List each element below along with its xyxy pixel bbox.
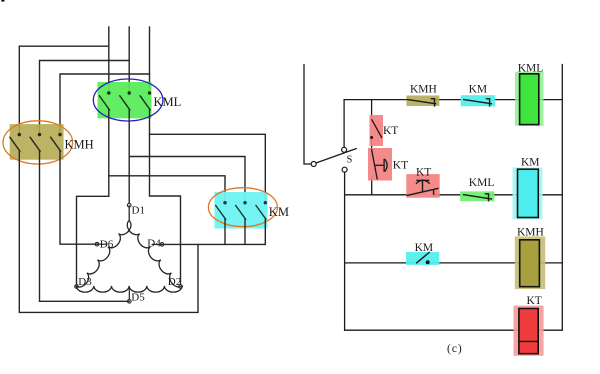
svg-text:KT: KT (393, 159, 408, 171)
svg-text:KT: KT (383, 125, 398, 137)
coil KM (518, 169, 539, 217)
svg-text:KM: KM (521, 157, 540, 169)
wires below KML (77, 110, 266, 285)
svg-text:KM: KM (415, 242, 434, 254)
svg-text:KT: KT (527, 295, 542, 307)
label 高速档 (0, 0, 1, 1)
node D5 (128, 287, 146, 303)
wire L3 to D2 with branch to KM (150, 110, 181, 285)
wire branch L1 to KM col1 (109, 176, 225, 201)
contact KT delay vertical highlight (368, 148, 392, 181)
wire right rail (538, 65, 562, 331)
node D1 (127, 203, 145, 216)
coil KMH (520, 240, 540, 287)
contact KML NC rung2 highlight (460, 191, 494, 201)
contactor KML highlight (98, 82, 152, 118)
contactor KMH highlight (10, 124, 64, 160)
svg-text:KM: KM (269, 205, 289, 219)
corner artifact mark (1, 0, 4, 2)
node D2 (168, 276, 183, 288)
wire KM outputs shorting bus (224, 219, 226, 244)
svg-text:KM: KM (469, 84, 488, 96)
wire rung3 (345, 262, 417, 264)
wire phase L1 vertical (108, 27, 110, 92)
wire KMH col2 down to D5 (40, 151, 130, 301)
node D3 (75, 276, 93, 288)
svg-text:KT: KT (416, 166, 431, 178)
wire D1 stub to apex (128, 205, 130, 220)
contact KT delay rung2 highlight (406, 174, 439, 198)
wire KT branch vertical (371, 100, 373, 120)
winding right side (127, 221, 182, 287)
wire left rail (304, 65, 311, 165)
svg-text:KML: KML (469, 177, 495, 189)
svg-text:KML: KML (154, 95, 182, 109)
contact KM NO rung3 highlight (406, 252, 439, 265)
winding left side (76, 221, 131, 287)
contact KT delay rung2 strokes (407, 180, 439, 195)
wire rung1 (344, 99, 407, 101)
coil KT divider (519, 340, 538, 342)
wire tap L3 to KMH col3 (60, 74, 150, 133)
svg-text:KMH: KMH (410, 84, 437, 96)
wire phase L3 vertical (149, 27, 151, 92)
wire high-speed down spine (344, 172, 346, 330)
contactor KM highlight (215, 192, 268, 229)
coil KML (520, 74, 539, 125)
contactor KML contacts (99, 91, 151, 110)
contact KT upper (NO) highlight (370, 115, 384, 146)
contact KM NC rung1 highlight (461, 95, 496, 106)
wire bus D4 to KM (162, 243, 265, 245)
contactor KMH ellipse (3, 121, 73, 164)
wires KM outputs to bus (162, 219, 265, 244)
wire KMH col1 down to bottom bus (19, 151, 198, 312)
wire rung4 (345, 329, 519, 331)
wire L2 to D1 with branch to KM (128, 110, 130, 203)
contact KT upper strokes (370, 119, 382, 139)
coil KM glow (513, 168, 543, 220)
coil KT glow (514, 306, 544, 356)
node D4 (147, 237, 164, 249)
motor delta winding (76, 205, 182, 292)
svg-text:KML: KML (518, 63, 544, 75)
contact KMH NC rung1 highlight (406, 96, 439, 107)
contactor KM ellipse (208, 188, 277, 227)
wire KMH col3 down to D6 (60, 151, 97, 244)
svg-text:D5: D5 (131, 291, 145, 303)
wires KMH outputs (19, 151, 198, 312)
svg-text:D3: D3 (78, 276, 92, 288)
contactor KMH contacts (10, 133, 62, 151)
svg-text:S: S (347, 154, 353, 165)
wire branch L2 to KM col2 (129, 157, 245, 202)
coil KML glow (515, 72, 544, 126)
svg-text:D1: D1 (132, 205, 145, 217)
svg-text:D4: D4 (147, 237, 161, 249)
wire L1 to D3 with branch to KM (77, 110, 109, 285)
svg-text:D2: D2 (168, 276, 181, 288)
svg-text:D6: D6 (100, 238, 114, 250)
wire low-speed up to rung1 (343, 100, 345, 148)
wire rung2 (345, 194, 407, 196)
wire branch L3 to KM col3 (150, 134, 266, 201)
contact KT delay vertical strokes (372, 149, 388, 180)
wire tap L1 to KMH col1 (19, 46, 109, 133)
contact KML NC strokes (463, 194, 492, 202)
contact KM NO strokes (416, 252, 430, 264)
contact KM NC strokes (463, 99, 492, 107)
wire tap L2 to KMH col2 (40, 61, 130, 134)
node D6 (95, 238, 114, 250)
winding bottom side (76, 286, 182, 292)
label 低速档 (0, 0, 1, 1)
svg-text:KMH: KMH (65, 138, 94, 152)
svg-text:KMH: KMH (517, 226, 544, 238)
contact KMH NC strokes (407, 99, 436, 107)
contactor KM contacts (216, 201, 267, 219)
wire phase L2 vertical (128, 27, 130, 92)
coil KMH glow (515, 237, 545, 290)
selector switch S (311, 147, 357, 172)
coil KT (519, 309, 538, 354)
svg-text:(c): (c) (447, 343, 463, 355)
contactor KML ellipse (93, 79, 163, 121)
